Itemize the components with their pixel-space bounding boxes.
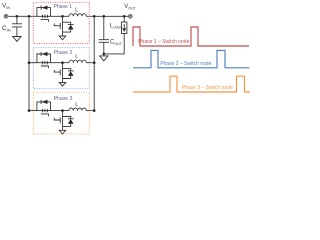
svg-text:L: L [75, 102, 78, 108]
svg-text:Phase 1 – Switch node: Phase 1 – Switch node [138, 39, 189, 45]
svg-text:Phase 2: Phase 2 [54, 50, 73, 56]
svg-text:Phase 1: Phase 1 [53, 4, 72, 10]
svg-text:Phase 2 – Switch node: Phase 2 – Switch node [160, 61, 211, 67]
svg-text:L: L [75, 54, 78, 60]
svg-text:Phase 3: Phase 3 [54, 96, 73, 102]
svg-text:L: L [75, 8, 78, 14]
svg-text:Phase 3 – Switch node: Phase 3 – Switch node [182, 85, 233, 91]
